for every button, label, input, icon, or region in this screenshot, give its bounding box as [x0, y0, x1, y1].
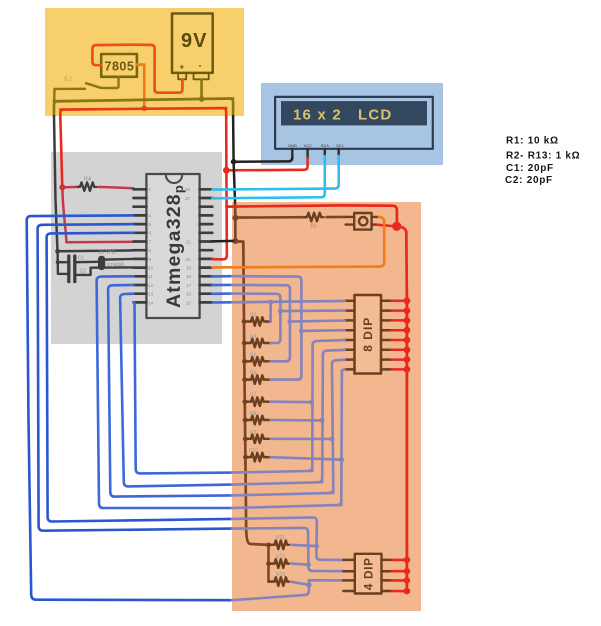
wire mcu pin18 to 8dip pin4	[212, 275, 232, 278]
svg-text:16 MHz: 16 MHz	[99, 250, 117, 256]
wire R9 lead to riser	[271, 437, 333, 440]
wire ground bus vertical into dip section (brown)	[235, 205, 268, 545]
svg-text:R1: 10 kΩ: R1: 10 kΩ	[506, 136, 559, 147]
svg-text:R7: R7	[250, 393, 257, 399]
svg-text:R11: R11	[276, 535, 285, 541]
wire 5V to mcu pin 7 (crimson)	[62, 189, 133, 242]
svg-text:16: 16	[186, 292, 192, 297]
resistor R9	[243, 430, 271, 443]
dip section background	[232, 202, 421, 611]
svg-text:5: 5	[149, 222, 152, 227]
junctions 8dip supply bus	[404, 297, 411, 372]
resistor R13	[269, 572, 309, 586]
junction 5V bus / 7805 output	[142, 106, 148, 112]
lcd section background	[261, 83, 443, 165]
wire mcu pin15 to 8dip pin1	[212, 301, 232, 304]
wire R7 lead to riser	[271, 400, 312, 403]
legend component values	[505, 136, 580, 187]
wire R6 branch	[271, 331, 302, 380]
wire R5 branch	[271, 322, 290, 362]
svg-text:6: 6	[149, 231, 152, 236]
capacitor C1	[69, 256, 85, 269]
wire mcu pin13 loop	[120, 294, 232, 487]
junction R6 / 8dip pin4 net	[299, 328, 304, 333]
svg-text:Atmega328p: Atmega328p	[163, 184, 186, 308]
dip supply bus (red)	[405, 301, 408, 592]
svg-text:R10: R10	[249, 448, 258, 454]
mcu pins right (15-28)	[200, 189, 213, 302]
wire 8dip pin7 riser	[329, 360, 344, 493]
svg-text:7805: 7805	[105, 60, 135, 74]
svg-text:C2: 20pF: C2: 20pF	[505, 175, 553, 186]
mcu U1 Atmega328p body	[146, 174, 199, 318]
mcu section background	[51, 152, 222, 344]
regulator U2 7805	[101, 54, 137, 77]
wire mcu pin16 to 8dip pin2	[212, 292, 232, 295]
svg-text:R12: R12	[276, 554, 285, 560]
svg-text:R3: R3	[250, 313, 257, 319]
wire battery minus to ground bus (olive)	[200, 79, 203, 99]
svg-text:27: 27	[185, 196, 191, 201]
wire C1 to crystal / mcu pin 9	[75, 259, 134, 262]
lcd pin stubs	[292, 149, 338, 159]
5V bus right corner (red)	[223, 108, 227, 116]
resistor R3	[242, 313, 271, 326]
svg-text:21: 21	[186, 239, 192, 244]
4dip left pins	[343, 560, 354, 591]
junction R11 / 4dip pin1 net	[314, 544, 319, 549]
svg-text:4: 4	[149, 213, 152, 218]
wire ground down to capacitors	[58, 251, 68, 274]
junction R10 / 8dip pin8 net	[339, 457, 344, 462]
resistor R12	[269, 554, 309, 568]
svg-text:R8: R8	[250, 411, 257, 417]
svg-text:4 DIP: 4 DIP	[364, 557, 376, 590]
wire button to 5V node (red)	[378, 225, 392, 226]
wire ground to mcu pin 8	[58, 249, 134, 252]
lcd screen	[281, 101, 427, 125]
svg-text:7: 7	[149, 239, 152, 244]
junction ground / C1	[56, 260, 60, 264]
junction R12 / 4dip pin2 net	[306, 562, 311, 567]
junction R5 / 8dip pin3 net	[287, 319, 292, 324]
8dip right pins	[381, 301, 392, 370]
wire R10 lead to riser	[271, 457, 342, 460]
4dip right pins	[382, 560, 393, 591]
svg-text:R4: R4	[250, 334, 257, 340]
junction R7 / 8dip pin5 net	[309, 400, 314, 405]
svg-text:R4: R4	[84, 177, 91, 183]
resistor R8	[243, 411, 271, 424]
wire lcd SDA to mcu pin27 (cyan)	[212, 156, 324, 198]
junction R9 / 8dip pin7 net	[330, 437, 335, 442]
crystal Y1 16MHz	[98, 250, 125, 271]
svg-text:R9: R9	[250, 430, 257, 436]
8dip supply links (red)	[392, 301, 407, 370]
wire mcu pin4 loop to 4dip pin3	[27, 215, 232, 600]
5V bus (red)	[60, 108, 226, 110]
wire mcu pin6 loop to 4dip pin1	[47, 233, 232, 522]
resistor R7	[242, 393, 270, 406]
wire R3 branch	[269, 302, 272, 321]
lcd pin labels GND VCC SDA SCL	[288, 143, 345, 148]
svg-text:R2- R13: 1 kΩ: R2- R13: 1 kΩ	[506, 151, 580, 162]
junction ground bus / mcu pin21	[233, 238, 239, 244]
junction ground bus / R1	[232, 215, 238, 221]
resistor R4 (reset pull-up)	[62, 177, 133, 191]
wire 8dip pin8 riser	[337, 370, 344, 506]
wire lcd VCC to 5V net (red)	[226, 158, 307, 170]
svg-text:SCL: SCL	[336, 143, 345, 148]
wire button to mcu pin19 (orange)	[212, 217, 384, 267]
wire ground left vertical (black)	[54, 116, 58, 251]
resistor R5b	[242, 352, 271, 365]
wire C2 to crystal / mcu pin 10	[75, 267, 134, 275]
wire 8dip pin5 riser	[308, 340, 344, 471]
svg-text:8 DIP: 8 DIP	[361, 317, 375, 352]
svg-text:C1: 20pF: C1: 20pF	[506, 163, 554, 174]
svg-text:16 x 2: 16 x 2	[293, 106, 342, 123]
svg-text:(crystal): (crystal)	[107, 262, 125, 268]
junction R8 / 8dip pin6 net	[319, 418, 324, 423]
svg-text:R1: R1	[311, 224, 318, 230]
lcd module frame	[275, 97, 433, 149]
junction R3 / 8dip pin1 net	[268, 300, 273, 305]
wire 5V rail left vertical (red)	[60, 116, 62, 187]
svg-text:9V: 9V	[181, 30, 207, 52]
junction R13 / 4dip pin3 net	[306, 582, 311, 587]
junction ground net / lcd gnd	[231, 159, 237, 165]
svg-text:20: 20	[186, 257, 192, 262]
dip switch S3 4DIP	[355, 554, 382, 594]
dip switch S2 8DIP	[355, 295, 382, 374]
wire 5V node to dip supply bus (red)	[397, 226, 407, 300]
svg-text:10: 10	[148, 266, 154, 271]
svg-text:C2: C2	[80, 269, 87, 275]
mcu pins left (1-14)	[134, 189, 147, 302]
svg-text:R6: R6	[250, 371, 257, 377]
junction chain / R11	[266, 543, 271, 548]
wire 5V to button (red top)	[226, 205, 397, 221]
switch S1	[54, 77, 118, 102]
mcu pin number labels	[148, 187, 192, 305]
wire R13 node to 4dip pin3	[309, 580, 344, 585]
resistor R10	[243, 448, 271, 461]
svg-text:15: 15	[186, 300, 192, 305]
wire mcu pin5 loop to 4dip pin2	[38, 224, 232, 531]
pushbutton SW1	[346, 213, 379, 230]
junction 5V button node	[392, 222, 401, 231]
svg-text:14: 14	[148, 300, 154, 305]
svg-text:LCD: LCD	[358, 106, 392, 123]
svg-text:VCC: VCC	[304, 143, 313, 148]
wire R4 branch	[271, 311, 281, 343]
svg-text:C1: C1	[78, 256, 85, 262]
8dip left pins	[345, 301, 355, 370]
capacitor C2	[69, 269, 86, 282]
svg-text:12: 12	[148, 283, 154, 288]
5V bus left corner (red)	[60, 110, 64, 116]
svg-text:18: 18	[186, 274, 192, 279]
svg-text:SDA: SDA	[321, 143, 330, 148]
wire lcd GND to ground net (black)	[234, 158, 293, 162]
svg-text:17: 17	[186, 283, 192, 288]
svg-text:S.1: S.1	[64, 77, 72, 83]
battery BT1 9V	[172, 14, 213, 80]
resistor R6	[242, 371, 270, 384]
wire mcu pin11 loop	[97, 276, 232, 508]
svg-text:19: 19	[186, 266, 192, 271]
junctions 4dip supply bus	[404, 557, 411, 595]
svg-text:11: 11	[148, 274, 153, 279]
wire 7805 output down to 5V bus (orange)	[137, 65, 144, 108]
wire ground right vertical (black)	[233, 116, 235, 205]
wire mcu pin17 to 8dip pin3	[212, 284, 232, 287]
svg-text:-: -	[199, 61, 202, 71]
junction chain / R12	[266, 561, 271, 566]
wire lcd SCL to mcu pin28 (cyan)	[212, 156, 338, 190]
ground bus right corner (olive)	[230, 99, 234, 116]
junction 5V net / lcd vcc	[223, 167, 230, 174]
wire mcu pin12 loop	[108, 285, 232, 497]
wire battery plus to 7805 input (red-orange)	[92, 45, 182, 93]
svg-text:8: 8	[149, 248, 152, 253]
wire mcu pin21 to ground bus (black)	[212, 240, 233, 243]
wire 8dip pin6 riser	[318, 350, 345, 482]
resistor R1	[235, 213, 345, 230]
wire mcu pin14 loop (left-bottom)	[134, 302, 233, 473]
junction R4 / 5V rail	[59, 184, 65, 190]
wire 5V right vertical to mcu pin20 (red)	[212, 116, 227, 259]
wire R11-R13 chain vertical (brown)	[267, 545, 270, 582]
svg-text:13: 13	[148, 292, 154, 297]
svg-text:R13: R13	[276, 572, 285, 578]
svg-text:GND: GND	[288, 143, 297, 148]
svg-text:R5: R5	[250, 352, 257, 358]
ground bus left corner (olive)	[54, 101, 58, 116]
4dip supply links (red)	[392, 560, 407, 591]
wire R8 lead to riser	[271, 419, 322, 422]
svg-text:9: 9	[149, 257, 152, 262]
power section background	[45, 8, 244, 116]
svg-text:+: +	[180, 63, 185, 72]
junction ground bus / battery minus	[199, 96, 205, 102]
resistor R5	[242, 334, 271, 347]
junction R4 / 8dip pin2 net	[278, 309, 283, 314]
resistor R11	[269, 535, 317, 549]
svg-text:1: 1	[149, 187, 152, 192]
junction ground / mcu pin8	[55, 249, 60, 254]
ground bus (olive)	[54, 99, 233, 102]
svg-text:28: 28	[185, 187, 191, 192]
